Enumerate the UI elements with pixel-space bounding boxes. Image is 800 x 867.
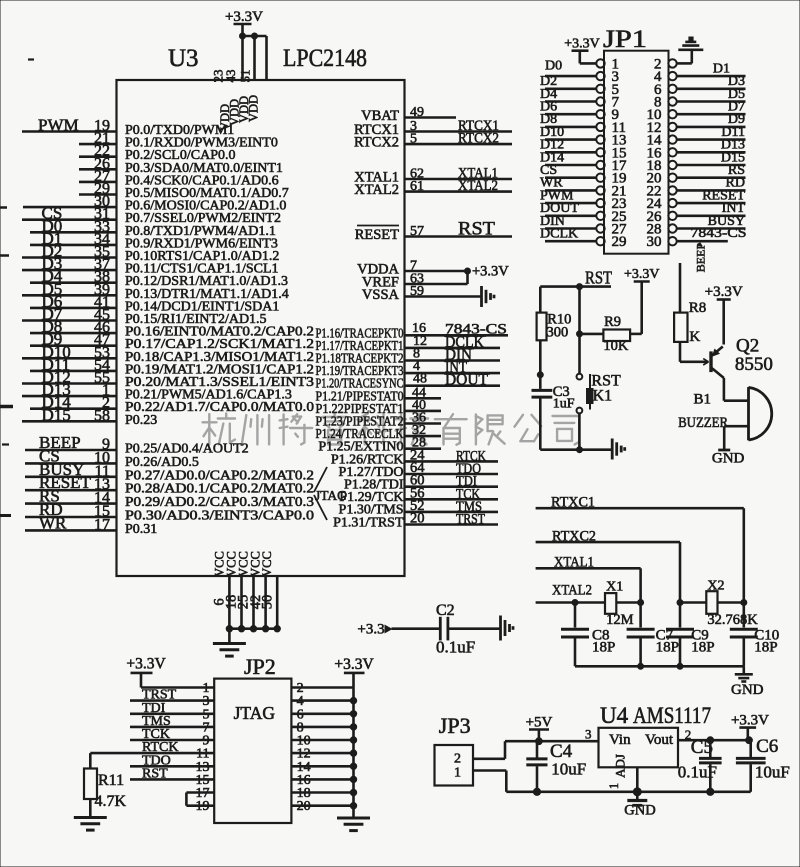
svg-text:C5: C5	[691, 737, 713, 758]
svg-text:4.7K: 4.7K	[95, 793, 127, 810]
svg-text:51: 51	[238, 70, 253, 83]
svg-text:C6: C6	[756, 736, 778, 757]
svg-text:12M: 12M	[606, 612, 634, 628]
svg-text:8550: 8550	[735, 354, 773, 375]
svg-text:2: 2	[454, 752, 461, 767]
svg-text:P0.31: P0.31	[125, 522, 157, 537]
svg-text:RTCX2: RTCX2	[354, 135, 399, 151]
svg-text:ADJ: ADJ	[613, 754, 628, 778]
svg-text:BEEP: BEEP	[694, 243, 708, 273]
svg-text:+3.3V: +3.3V	[472, 264, 509, 280]
svg-text:5: 5	[410, 132, 417, 147]
svg-text:TRST: TRST	[456, 512, 485, 528]
svg-text:61: 61	[410, 179, 424, 194]
svg-text:XTAL2: XTAL2	[552, 583, 592, 599]
svg-text:U3: U3	[168, 45, 199, 72]
svg-text:18P: 18P	[691, 640, 714, 656]
svg-text:VDD: VDD	[247, 95, 261, 122]
svg-text:30: 30	[647, 234, 662, 250]
svg-text:JTAG: JTAG	[315, 488, 347, 503]
svg-text:18P: 18P	[656, 640, 679, 656]
svg-text:XTAL2: XTAL2	[354, 182, 399, 198]
svg-text:R11: R11	[98, 772, 124, 789]
svg-text:RST: RST	[142, 766, 168, 781]
svg-text:VCC: VCC	[260, 551, 274, 577]
svg-text:+3.3V: +3.3V	[126, 656, 166, 673]
svg-text:PWM: PWM	[38, 116, 79, 135]
svg-text:JP3: JP3	[439, 713, 471, 738]
svg-text:43: 43	[223, 70, 238, 83]
svg-text:RESET: RESET	[355, 227, 399, 243]
svg-text:R8: R8	[689, 300, 707, 316]
svg-text:+3.3V: +3.3V	[705, 284, 743, 300]
svg-text:10uF: 10uF	[551, 760, 586, 779]
svg-text:JTAG: JTAG	[234, 703, 276, 723]
svg-text:0.1uF: 0.1uF	[436, 638, 475, 657]
svg-text:P0.23: P0.23	[125, 413, 157, 428]
svg-text:20: 20	[410, 511, 425, 527]
svg-text:D15: D15	[42, 405, 71, 424]
svg-text:1: 1	[454, 765, 461, 780]
svg-text:JP2: JP2	[244, 654, 276, 679]
svg-text:49: 49	[410, 105, 424, 120]
svg-text:B1: B1	[694, 392, 712, 408]
svg-text:Vout: Vout	[645, 732, 674, 748]
svg-text:K1: K1	[593, 388, 613, 405]
svg-text:RTCX2: RTCX2	[458, 131, 499, 147]
svg-text:C2: C2	[436, 602, 455, 619]
svg-text:D0: D0	[545, 59, 562, 74]
svg-text:GND: GND	[731, 682, 764, 698]
svg-text:X2: X2	[707, 579, 724, 594]
svg-text:7843-CS: 7843-CS	[691, 226, 747, 241]
svg-text:50: 50	[259, 595, 275, 610]
svg-text:RST: RST	[585, 268, 612, 288]
svg-text:VSSA: VSSA	[362, 287, 400, 303]
svg-text:P1.31/TRST: P1.31/TRST	[333, 515, 404, 530]
svg-text:+5V: +5V	[526, 715, 553, 731]
svg-text:1uF: 1uF	[553, 397, 575, 412]
svg-text:Vin: Vin	[609, 732, 631, 748]
svg-text:D1: D1	[713, 62, 730, 77]
svg-text:+3.3V: +3.3V	[564, 37, 600, 52]
svg-text:58: 58	[94, 407, 110, 424]
svg-text:R9: R9	[604, 314, 621, 330]
svg-text:+3.3V: +3.3V	[225, 9, 263, 25]
svg-text:1: 1	[607, 783, 621, 789]
svg-text:+3.3: +3.3	[357, 622, 384, 638]
svg-text:57: 57	[410, 224, 424, 239]
svg-text:JP1: JP1	[603, 26, 647, 53]
svg-text:0.1uF: 0.1uF	[678, 763, 717, 782]
svg-text:LPC2148: LPC2148	[283, 45, 367, 72]
svg-text:29: 29	[612, 234, 627, 250]
svg-text:BUZZER: BUZZER	[678, 415, 728, 431]
svg-text:3: 3	[585, 727, 592, 742]
svg-text:X1: X1	[606, 580, 623, 595]
svg-text:GND: GND	[712, 451, 745, 467]
svg-text:WR: WR	[39, 513, 67, 532]
svg-text:DCLK: DCLK	[540, 227, 578, 242]
svg-text:+3.3V: +3.3V	[624, 267, 660, 282]
svg-text:RST: RST	[458, 219, 495, 240]
svg-text:U4: U4	[600, 703, 629, 728]
svg-text:18P: 18P	[592, 640, 615, 656]
svg-text:10uF: 10uF	[755, 763, 790, 782]
svg-text:+3.3V: +3.3V	[334, 656, 374, 673]
svg-text:32.768K: 32.768K	[707, 612, 758, 628]
svg-text:XTAL2: XTAL2	[458, 178, 498, 194]
svg-text:300: 300	[547, 325, 569, 341]
svg-text:59: 59	[410, 284, 424, 299]
svg-text:K: K	[689, 329, 700, 345]
svg-text:GND: GND	[624, 803, 655, 819]
svg-text:18P: 18P	[754, 640, 777, 656]
svg-text:17: 17	[94, 516, 110, 533]
svg-text:+3.3V: +3.3V	[731, 713, 769, 729]
svg-text:10K: 10K	[603, 338, 629, 354]
svg-text:AMS1117: AMS1117	[633, 703, 711, 728]
